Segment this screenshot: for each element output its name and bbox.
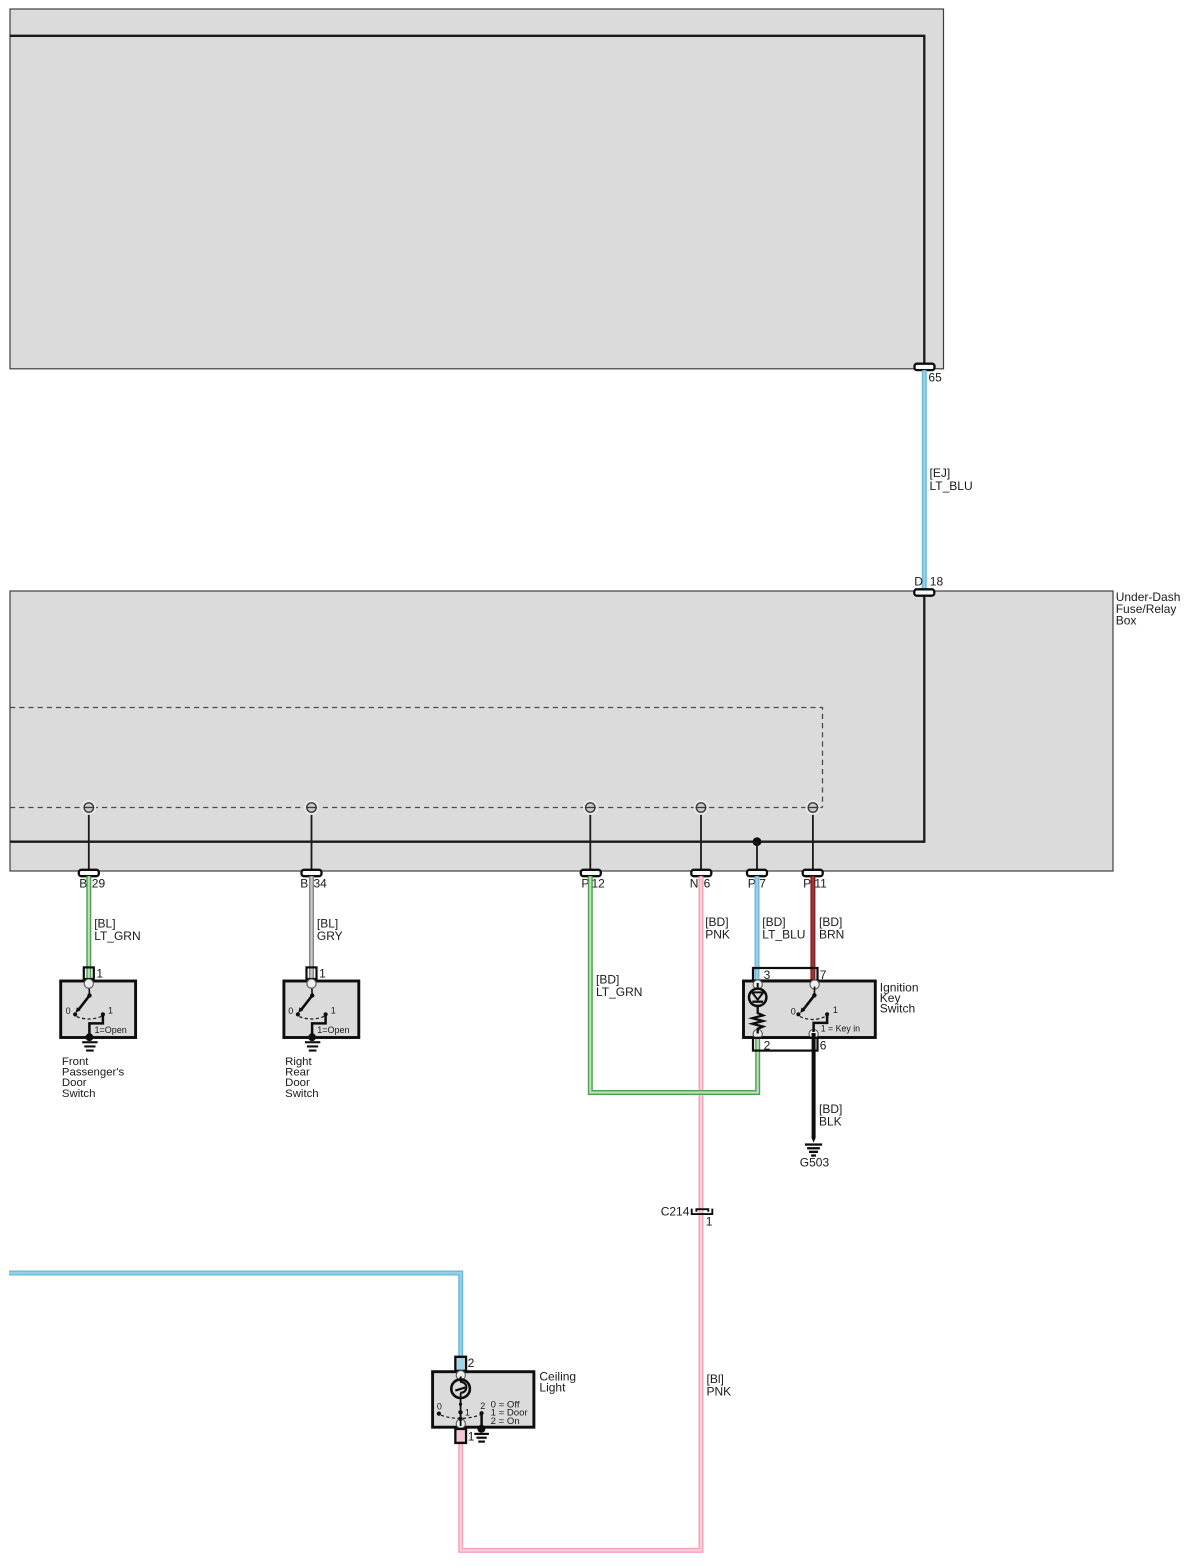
svg-text:Box: Box bbox=[1116, 613, 1137, 627]
svg-text:7: 7 bbox=[759, 877, 766, 891]
ignition key switch connector cavity (pins 3,7) bbox=[753, 968, 818, 981]
svg-text:2 = On: 2 = On bbox=[491, 1416, 520, 1427]
Under-Dash Fuse/Relay Box bbox=[10, 591, 1113, 871]
svg-text:LT_BLU: LT_BLU bbox=[930, 479, 973, 493]
svg-text:12: 12 bbox=[592, 877, 606, 891]
svg-text:1: 1 bbox=[108, 1006, 113, 1016]
pin circle 6 bbox=[809, 1029, 818, 1038]
svg-text:D: D bbox=[914, 574, 923, 588]
key switch lever bbox=[813, 987, 815, 996]
svg-text:6: 6 bbox=[820, 1039, 827, 1053]
wire elbow to ground bbox=[312, 1014, 326, 1036]
terminal circle N6 bbox=[695, 801, 708, 814]
key-in indicator LED bbox=[757, 983, 759, 990]
svg-text:LT_GRN: LT_GRN bbox=[596, 985, 642, 999]
connector B 34 bbox=[302, 870, 322, 876]
ground symbol at ceiling light bbox=[477, 1425, 485, 1433]
wire [BD] PNK from N6 through C214 to ceiling light (U route) bbox=[461, 876, 701, 1550]
resistor bbox=[752, 1005, 763, 1034]
wire fill in pin 2 cavity bbox=[457, 1358, 464, 1371]
svg-text:Switch: Switch bbox=[880, 1001, 915, 1015]
terminal 1 bbox=[825, 1012, 829, 1016]
connector B 29 bbox=[79, 870, 99, 876]
connector P 11 bbox=[803, 870, 823, 876]
svg-text:29: 29 bbox=[92, 877, 106, 891]
svg-text:0: 0 bbox=[66, 1006, 71, 1016]
connector pin 1 cavity of Right door switch bbox=[307, 967, 317, 979]
svg-text:LT_BLU: LT_BLU bbox=[762, 927, 805, 941]
inline connector C214 bbox=[692, 1209, 713, 1215]
svg-text:Light: Light bbox=[539, 1380, 566, 1394]
wire terminal 2 to ground bbox=[480, 1413, 483, 1427]
pin circle bbox=[307, 979, 316, 988]
junction dot P7 on bus bbox=[753, 837, 762, 846]
svg-text:1=Open: 1=Open bbox=[317, 1025, 349, 1035]
bulb to switch wire bbox=[460, 1393, 462, 1426]
svg-text:1 = Key in: 1 = Key in bbox=[821, 1023, 860, 1033]
ceiling light pin 2 cavity bbox=[455, 1357, 466, 1371]
ignition key switch body bbox=[744, 981, 876, 1038]
terminal circle B34 bbox=[305, 801, 318, 814]
svg-text:BRN: BRN bbox=[819, 927, 844, 941]
svg-text:1: 1 bbox=[319, 966, 326, 980]
wire [BD] LT_BLU from P7 to ignition pin 3 bbox=[755, 876, 760, 982]
svg-text:0: 0 bbox=[288, 1006, 293, 1016]
bulb symbol bbox=[460, 1377, 462, 1383]
pin circle 2 bbox=[753, 1029, 762, 1038]
pin circle bbox=[84, 979, 93, 988]
internal wire stub N6 bbox=[700, 810, 702, 870]
svg-text:Switch: Switch bbox=[285, 1088, 319, 1100]
svg-text:0: 0 bbox=[791, 1007, 796, 1017]
ceiling light body bbox=[433, 1372, 534, 1428]
connector P 12 bbox=[581, 870, 601, 876]
ignition connector cavity (pins 2,6) bbox=[753, 1038, 818, 1051]
svg-text:N: N bbox=[690, 877, 699, 891]
svg-text:2: 2 bbox=[480, 1401, 485, 1411]
svg-text:1: 1 bbox=[468, 1429, 475, 1443]
internal wire stub P7 bbox=[756, 842, 758, 870]
wire [BD] LT_GRN from P12 to ignition key switch pin 2 bbox=[590, 876, 757, 1092]
svg-text:34: 34 bbox=[314, 877, 328, 891]
terminal circle P12 bbox=[584, 801, 597, 814]
svg-text:PNK: PNK bbox=[707, 1384, 732, 1398]
svg-text:C214: C214 bbox=[661, 1205, 690, 1219]
connector D 18 bbox=[914, 589, 934, 595]
dashed internal block bbox=[10, 708, 823, 808]
ground symbol bbox=[308, 1033, 316, 1041]
ground G503 bbox=[805, 1143, 822, 1145]
connector pin 65 bbox=[915, 364, 935, 370]
switch body box bbox=[284, 981, 359, 1038]
svg-text:GRY: GRY bbox=[317, 929, 343, 943]
svg-text:G503: G503 bbox=[800, 1156, 830, 1170]
throw arc bbox=[800, 1016, 826, 1019]
pin circle 7 bbox=[810, 980, 819, 989]
upper module gray box bbox=[10, 9, 944, 369]
svg-text:18: 18 bbox=[930, 574, 944, 588]
svg-text:2: 2 bbox=[764, 1039, 771, 1053]
wire [BD] BLK from ignition pin 6 to G503 bbox=[812, 1033, 816, 1139]
terminal 1 bbox=[101, 1012, 105, 1016]
svg-text:BLK: BLK bbox=[819, 1114, 842, 1128]
svg-text:2: 2 bbox=[468, 1356, 475, 1370]
internal wire stub B34 bbox=[311, 810, 313, 870]
terminal circle B29 bbox=[82, 801, 95, 814]
svg-text:B: B bbox=[300, 877, 308, 891]
pin circle 3 bbox=[753, 980, 762, 989]
terminal 1 bbox=[324, 1012, 328, 1016]
svg-text:1: 1 bbox=[331, 1006, 336, 1016]
internal wire stub P12 bbox=[589, 810, 591, 870]
wire LT_BLU feed to ceiling light bbox=[9, 1273, 461, 1371]
svg-text:0: 0 bbox=[437, 1401, 442, 1411]
svg-text:11: 11 bbox=[814, 877, 827, 891]
throw arc bbox=[299, 1016, 324, 1019]
ground symbol bbox=[86, 1033, 94, 1041]
svg-text:B: B bbox=[79, 877, 87, 891]
svg-text:Switch: Switch bbox=[62, 1088, 96, 1100]
wire [EJ] LT_BLU from pin 65 to D18 bbox=[922, 370, 927, 589]
connector N 6 bbox=[691, 870, 711, 876]
internal bus wire from D18 bbox=[10, 596, 925, 842]
connector pin 1 cavity of Front door switch bbox=[84, 967, 94, 979]
svg-text:6: 6 bbox=[704, 877, 711, 891]
switch body box bbox=[61, 981, 136, 1038]
svg-text:1: 1 bbox=[833, 1005, 838, 1015]
internal wire stub P11 bbox=[812, 810, 814, 870]
switch lever bbox=[88, 989, 90, 996]
wire [BL] LT_GRN from B29 bbox=[86, 876, 91, 982]
throw arc bbox=[77, 1016, 102, 1019]
svg-text:1: 1 bbox=[96, 966, 103, 980]
svg-text:P: P bbox=[803, 877, 811, 891]
internal wire stub B29 bbox=[88, 810, 90, 870]
wire fill in pin 1 cavity bbox=[457, 1430, 464, 1443]
pin circle 2 bbox=[456, 1371, 465, 1380]
connector P 7 bbox=[747, 870, 767, 876]
throw arc bbox=[441, 1415, 480, 1419]
pin circle 1 bbox=[456, 1419, 465, 1428]
ceiling light pin 1 cavity bbox=[455, 1429, 466, 1443]
terminal circle P11 bbox=[807, 801, 820, 814]
svg-text:1: 1 bbox=[706, 1214, 713, 1228]
svg-text:65: 65 bbox=[928, 371, 942, 385]
switch lever bbox=[311, 989, 313, 996]
svg-text:LT_GRN: LT_GRN bbox=[94, 929, 140, 943]
svg-text:1=Open: 1=Open bbox=[95, 1025, 127, 1035]
svg-text:PNK: PNK bbox=[705, 927, 730, 941]
wire elbow to ground bbox=[89, 1014, 103, 1036]
wire [BL] GRY from B34 bbox=[309, 876, 314, 982]
elbow from terminal 1 to pin 6 bbox=[814, 1014, 828, 1032]
inner sub-box border bbox=[10, 36, 924, 364]
svg-text:1: 1 bbox=[465, 1407, 470, 1417]
wire [BD] BRN from P11 to ignition pin 7 bbox=[810, 876, 815, 982]
terminal 1 (common) bbox=[458, 1410, 462, 1414]
